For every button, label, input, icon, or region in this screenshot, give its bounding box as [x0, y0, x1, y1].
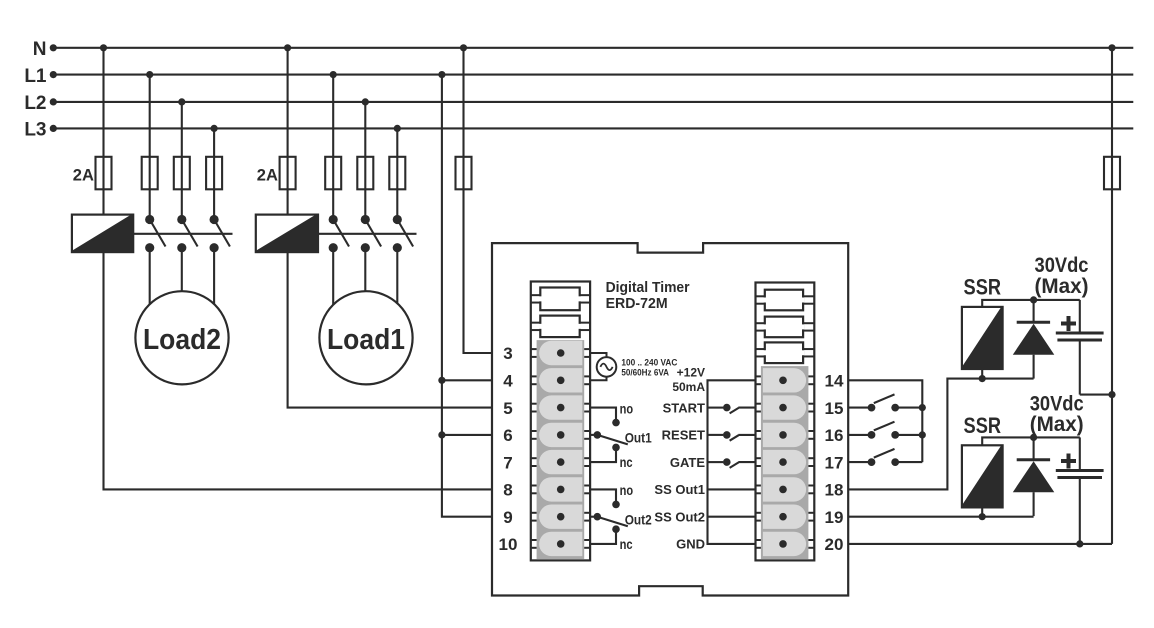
- svg-text:6: 6: [503, 426, 512, 445]
- relay contact Out2 (no): [590, 489, 616, 501]
- relay contact Out1 (no): [590, 408, 616, 420]
- fuse F10 (right rail): [1104, 157, 1120, 190]
- svg-text:nc: nc: [620, 454, 633, 470]
- terminal 5 (left strip): [531, 395, 590, 419]
- motor Load1: [319, 291, 412, 384]
- node junction terminal 4 tap: [438, 377, 445, 384]
- battery/capacitor B1 (30Vdc): [1056, 300, 1104, 395]
- wire contact K1-1 to Load1: [332, 248, 334, 340]
- wire drop from N: [287, 48, 289, 215]
- switch START (internal symbol): [708, 404, 757, 414]
- motor Load2: [135, 291, 228, 384]
- node junction on L3 at x=397.3: [394, 125, 401, 132]
- wire to terminal 4: [442, 379, 492, 381]
- terminal 3 (left strip): [531, 341, 590, 365]
- fuse F8 (Load1 L3): [389, 157, 405, 190]
- wire: terminal 18 (SS Out1) to SSR1: [848, 379, 1033, 490]
- terminal 19 (right strip): [756, 505, 815, 529]
- svg-text:Out1: Out1: [625, 430, 652, 446]
- terminal strip body (right): [756, 283, 815, 561]
- node junction pushbutton bus: [919, 404, 926, 411]
- SSR U2 (Out1): [962, 307, 1003, 369]
- plus sign B2: [1061, 454, 1076, 469]
- contact K2-1 (NO): [145, 215, 165, 252]
- terminal 14 (right strip): [756, 368, 815, 392]
- svg-text:18: 18: [825, 481, 844, 500]
- terminal 17 (right strip): [756, 450, 815, 474]
- svg-text:L3: L3: [24, 120, 46, 141]
- node L3 left terminal: [50, 125, 57, 132]
- wire: K1 mechanical linkage: [318, 233, 417, 235]
- svg-text:SS Out2: SS Out2: [654, 509, 705, 524]
- node junction pushbutton bus: [919, 431, 926, 438]
- wire: internal +12V bus: [708, 380, 757, 544]
- wire drop from L2: [181, 102, 183, 216]
- connector cell 2 (right strip): [756, 317, 815, 338]
- svg-text:L1: L1: [24, 66, 47, 87]
- battery/capacitor B2 (30Vdc): [1056, 437, 1104, 544]
- wire: terminal 14 to pushbutton bus: [848, 380, 922, 462]
- wire: L2 power rail: [53, 101, 1133, 103]
- node junction B2 negative / GND: [1076, 540, 1083, 547]
- wire: K1 coil to terminal 5: [288, 252, 492, 408]
- node junction on L2 at x=181.8: [178, 98, 185, 105]
- svg-text:Digital Timer: Digital Timer: [606, 279, 690, 296]
- node junction on N (right rail): [1108, 44, 1115, 51]
- relay contact Out2 (nc): [612, 525, 620, 533]
- contactor coil K1 (Load1): [256, 215, 318, 253]
- relay contact Out1 common: [590, 434, 596, 436]
- svg-text:16: 16: [825, 426, 844, 445]
- svg-text:Load1: Load1: [327, 324, 405, 356]
- wire drop from L3: [396, 128, 398, 215]
- node junction on L3 at x=214.1: [211, 125, 218, 132]
- relay contact Out1 (nc): [612, 444, 620, 452]
- wire contact K2-1 to Load2: [149, 248, 151, 340]
- node SSR2 bottom junction: [979, 513, 986, 520]
- wire drop from L1: [149, 75, 151, 216]
- wire SSR1 bottom stub: [981, 369, 983, 379]
- node junction on N at x=287.6: [284, 44, 291, 51]
- terminal 18 (right strip): [756, 477, 815, 501]
- terminal 10 (left strip): [531, 532, 590, 556]
- wire contact K2-2 to Load2: [181, 248, 183, 340]
- node junction on L2 at x=365.3: [362, 98, 369, 105]
- connector cell 3 (right strip): [756, 342, 815, 363]
- switch RESET (internal symbol): [708, 431, 757, 441]
- wire to terminal 6: [442, 434, 492, 436]
- pushbutton RESET button S2: [848, 422, 922, 439]
- node junction terminal 6 tap: [438, 431, 445, 438]
- wire: L1 power rail: [53, 74, 1133, 76]
- node junction on L1 at x=333.2: [330, 71, 337, 78]
- node SSR1 top junction: [1030, 296, 1037, 303]
- svg-text:4: 4: [503, 372, 513, 391]
- node SSR2 top junction: [1030, 434, 1037, 441]
- wire: K2 mechanical linkage: [133, 233, 232, 235]
- svg-text:+12V: +12V: [677, 366, 705, 380]
- relay contact Out2 common: [590, 516, 596, 518]
- wire drop from L3: [213, 128, 215, 215]
- svg-text:RESET: RESET: [662, 428, 705, 443]
- node junction on N (module feed): [460, 44, 467, 51]
- svg-text:no: no: [620, 400, 634, 416]
- svg-text:50/60Hz 6VA: 50/60Hz 6VA: [621, 367, 669, 378]
- svg-text:30Vdc: 30Vdc: [1035, 254, 1089, 277]
- wire contact K1-2 to Load1: [364, 248, 366, 340]
- fuse F5 (2A, Load1 coil): [280, 157, 296, 190]
- wire SS Out2 to terminal: [708, 516, 757, 518]
- fuse F4 (Load2 L3): [206, 157, 222, 190]
- terminal column background (right strip): [761, 366, 809, 559]
- svg-text:15: 15: [825, 399, 844, 418]
- wire: L1 drop to terminals 4/6/9: [442, 75, 492, 517]
- contact K2-3 (NO): [210, 215, 230, 252]
- contactor coil K2 (Load2): [72, 215, 133, 253]
- wire: L3 power rail: [53, 127, 1133, 129]
- svg-text:7: 7: [503, 453, 512, 472]
- node SSR1 bottom junction: [979, 375, 986, 382]
- digital timer module ERD-72M outline U1: [492, 243, 848, 595]
- connector cell 2 (left strip): [531, 316, 590, 338]
- svg-text:SS Out1: SS Out1: [654, 482, 705, 497]
- svg-text:20: 20: [825, 535, 844, 554]
- svg-text:2A: 2A: [257, 167, 278, 185]
- SSR U3 (Out2): [962, 445, 1003, 507]
- wire drop from L1: [332, 75, 334, 216]
- connector cell 1 (left strip): [531, 288, 590, 311]
- svg-text:N: N: [33, 39, 47, 60]
- svg-text:Load2: Load2: [143, 324, 221, 356]
- svg-text:10: 10: [499, 535, 518, 554]
- svg-text:9: 9: [503, 508, 512, 527]
- wire contact K2-3 to Load2: [213, 248, 215, 340]
- terminal column background (left strip): [537, 340, 585, 559]
- svg-text:ERD-72M: ERD-72M: [606, 295, 668, 312]
- terminal 9 (left strip): [531, 505, 590, 529]
- node junction on L1 at x=149.7: [146, 71, 153, 78]
- svg-text:START: START: [663, 400, 705, 415]
- svg-text:GATE: GATE: [670, 455, 705, 470]
- wire SS Out1 to terminal: [708, 488, 757, 490]
- svg-text:19: 19: [825, 508, 844, 527]
- terminal 8 (left strip): [531, 477, 590, 501]
- diode D1: [1013, 300, 1055, 379]
- svg-text:50mA: 50mA: [672, 380, 705, 394]
- fuse F3 (Load2 L2): [174, 157, 190, 190]
- terminal 7 (left strip): [531, 450, 590, 474]
- wire: SSR1 top wire: [982, 300, 1080, 307]
- svg-text:no: no: [620, 482, 634, 498]
- wire: N drop through fuse F9 to terminal 3: [464, 48, 493, 353]
- svg-text:30Vdc: 30Vdc: [1030, 392, 1084, 415]
- svg-text:3: 3: [503, 344, 512, 363]
- wire SSR2 bottom stub: [981, 507, 983, 516]
- svg-text:8: 8: [503, 481, 512, 500]
- contact K1-1 (NO): [329, 215, 349, 252]
- connector cell 1 (right strip): [756, 290, 815, 311]
- node junction on N at x=103.5: [100, 44, 107, 51]
- diode D2: [1013, 437, 1055, 516]
- terminal 4 (left strip): [531, 368, 590, 392]
- svg-text:Out2: Out2: [625, 511, 652, 527]
- contact K2-2 (NO): [177, 215, 197, 252]
- terminal 16 (right strip): [756, 423, 815, 447]
- svg-text:SSR: SSR: [964, 413, 1002, 438]
- pushbutton GATE button S3: [848, 449, 922, 466]
- svg-text:(Max): (Max): [1035, 275, 1089, 298]
- fuse F7 (Load1 L2): [357, 157, 373, 190]
- svg-text:GND: GND: [676, 537, 705, 552]
- AC supply symbol (100..240 VAC): [589, 353, 616, 380]
- contact K1-2 (NO): [361, 215, 381, 252]
- svg-text:SSR: SSR: [964, 275, 1002, 300]
- wire: N power rail: [53, 47, 1133, 49]
- wire: terminal 19 (SS Out2) to SSR2: [848, 516, 1033, 518]
- fuse F1 (2A, Load2 coil): [96, 157, 112, 190]
- node L1 left terminal: [50, 71, 57, 78]
- svg-text:(Max): (Max): [1030, 413, 1084, 436]
- svg-text:L2: L2: [24, 93, 46, 114]
- svg-text:2A: 2A: [73, 167, 94, 185]
- wire drop from L2: [364, 102, 366, 216]
- switch GATE (internal symbol): [708, 458, 757, 468]
- contact K1-3 (NO): [393, 215, 413, 252]
- fuse F6 (Load1 L1): [325, 157, 341, 190]
- terminal 15 (right strip): [756, 395, 815, 419]
- wire drop from N: [102, 48, 104, 215]
- terminal 20 (right strip): [756, 532, 815, 556]
- wire: SSR2 top wire: [982, 437, 1080, 445]
- plus sign B1: [1061, 316, 1076, 331]
- svg-text:nc: nc: [620, 536, 633, 552]
- wire: terminal 20 (GND) to right rail: [848, 543, 1112, 545]
- pushbutton START button S1: [848, 394, 922, 411]
- svg-text:17: 17: [825, 453, 844, 472]
- terminal 6 (left strip): [531, 423, 590, 447]
- wire: B1 negative to right rail: [1080, 394, 1112, 396]
- node L2 left terminal: [50, 98, 57, 105]
- wire contact K1-3 to Load1: [396, 248, 398, 340]
- fuse F9 (timer supply): [456, 157, 472, 190]
- svg-text:5: 5: [503, 399, 512, 418]
- wire: K2 coil to terminal 8: [104, 252, 493, 489]
- node N left terminal: [50, 44, 57, 51]
- svg-text:14: 14: [825, 372, 844, 391]
- node junction on L1 (module feed): [438, 71, 445, 78]
- wire: right rail from N: [1111, 48, 1113, 544]
- fuse F2 (Load2 L1): [142, 157, 158, 190]
- terminal strip body (left): [531, 282, 590, 561]
- node junction right rail / B1: [1108, 391, 1115, 398]
